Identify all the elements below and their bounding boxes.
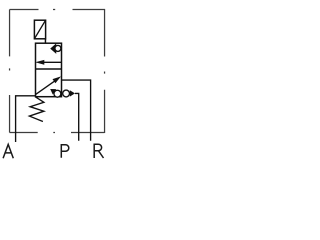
external check-valve seat (70, 90, 75, 96)
solenoid-to-valve stub (44, 39, 46, 43)
lower cell check-valve ball (54, 90, 61, 97)
enclosure dash-dot border, right side (104, 10, 106, 133)
enclosure dash-dot border, left side (9, 10, 11, 133)
port label R (94, 144, 103, 158)
enclosure dash-dot border, top side (10, 9, 106, 11)
external check-valve ball (63, 90, 70, 97)
port P connection line (75, 93, 79, 140)
port label A (3, 144, 13, 158)
enclosure dash-dot border, bottom side (10, 132, 105, 134)
upper cell check-valve seat (51, 44, 56, 53)
lower cell check-valve seat (angled) (50, 89, 56, 95)
port label P (61, 145, 68, 158)
upper cell flow arrow (blocked path, points left) (42, 61, 62, 63)
lower cell diagonal flow arrow (35, 79, 58, 95)
solenoid coil box (34, 20, 45, 39)
upper cell check-valve ball (55, 45, 61, 51)
solenoid diagonal (34, 20, 45, 39)
pilot / port R connection line (62, 80, 91, 141)
port A connection line (16, 96, 36, 142)
valve position divider (36, 68, 62, 70)
valve body (two stacked position boxes) (36, 43, 62, 96)
return spring (29, 97, 44, 122)
